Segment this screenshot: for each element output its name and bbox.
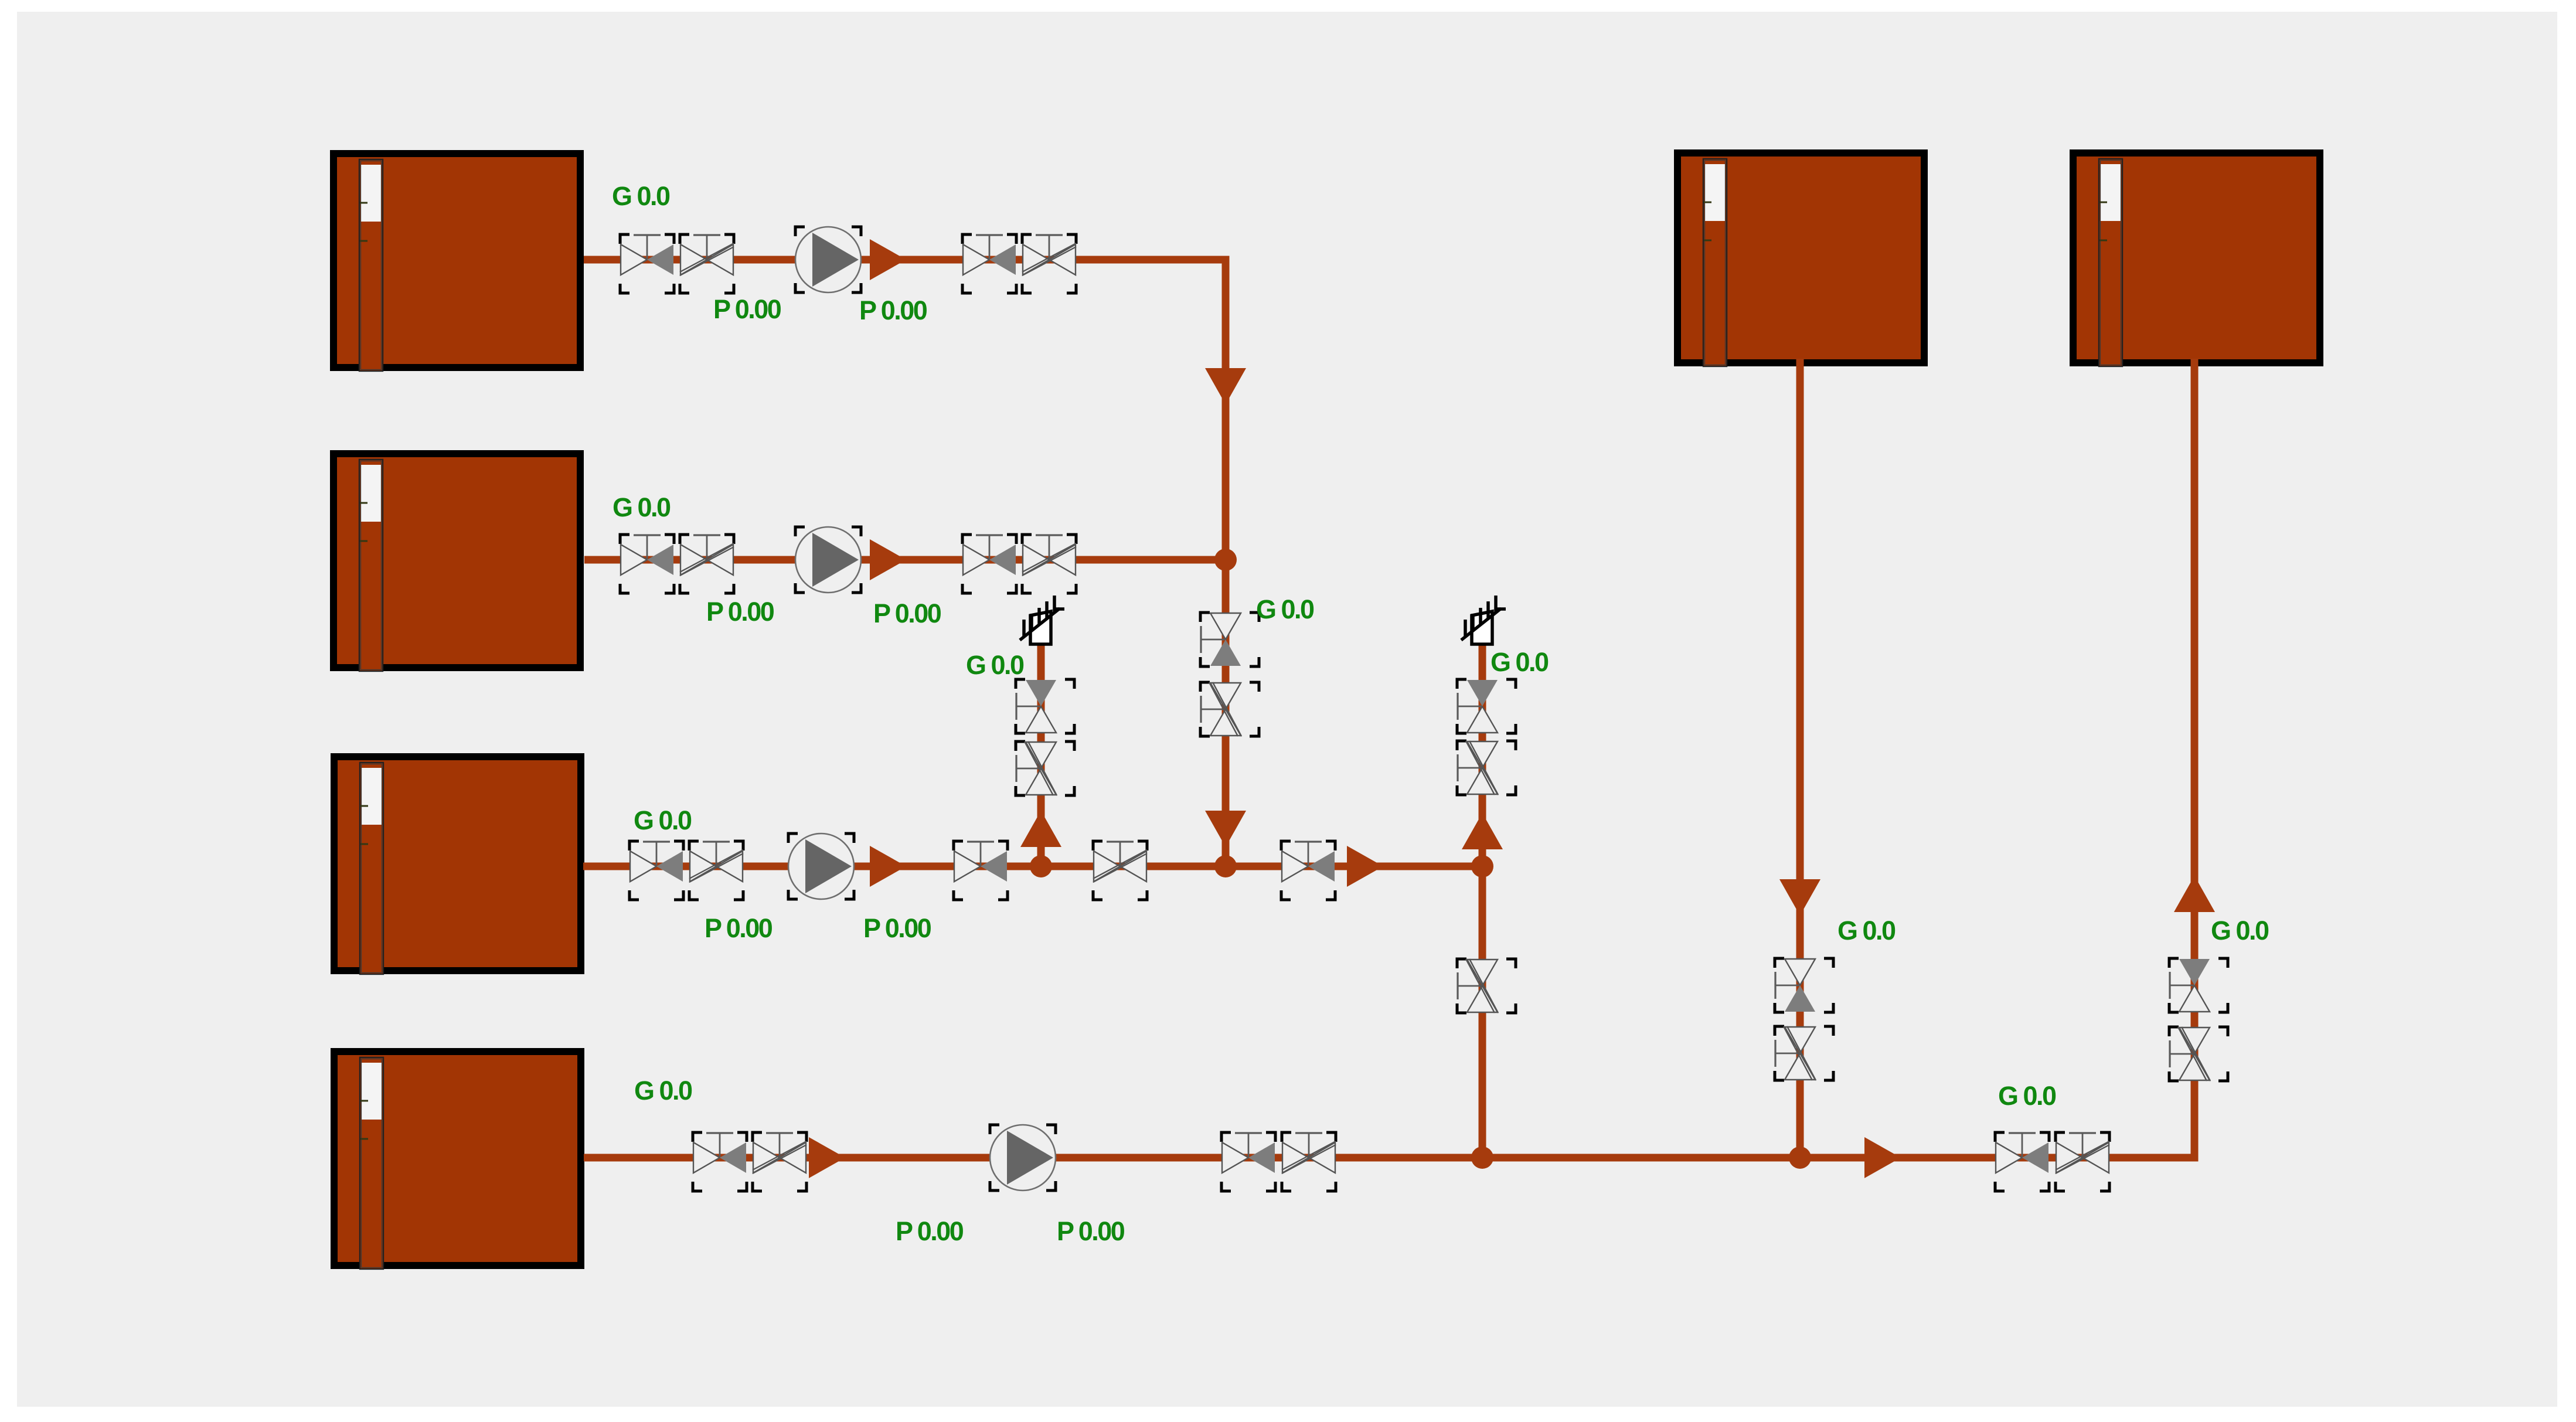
svg-text:G 0.0: G 0.0: [612, 181, 670, 211]
tank B3 (third boiler) level gauge: [360, 763, 383, 974]
tank B5 (top-right consumer) body: [1674, 149, 1928, 366]
svg-text:P 0.00: P 0.00: [859, 295, 927, 325]
pump P4 row-4: [990, 1125, 1056, 1190]
tank B6 (far-right consumer) level gauge: [2099, 159, 2122, 366]
node A junction row-1/row-2: [1214, 549, 1237, 571]
valve V24 shutoff vent branch 2: [1457, 679, 1516, 733]
svg-text:G 0.0: G 0.0: [612, 492, 671, 522]
tank B4 (bottom boiler) body: [331, 1048, 584, 1269]
valve V11 shutoff row-3 after pump: [954, 841, 1008, 900]
svg-text:G 0.0: G 0.0: [966, 650, 1024, 680]
svg-text:G 0.0: G 0.0: [1837, 916, 1896, 945]
valve V23 balancing vent branch 1: [1016, 741, 1074, 795]
flow arrow riser down lower: [1205, 811, 1246, 847]
flow arrow tank B5 downcomer: [1779, 879, 1820, 916]
valve V16 shutoff row-4 after pump: [1221, 1132, 1275, 1191]
svg-text:P 0.00: P 0.00: [706, 597, 774, 627]
valve V26 balancing node C to row-4: [1457, 959, 1516, 1013]
svg-text:P 0.00: P 0.00: [713, 294, 781, 324]
valve V10 balancing row-3: [689, 841, 743, 900]
tank B1 (top-left boiler) level gauge: [359, 159, 383, 371]
valve V28 balancing tank B5 downcomer: [1775, 1026, 1833, 1080]
node junction vent branch 1: [1030, 855, 1052, 877]
svg-text:G 0.0: G 0.0: [1491, 647, 1549, 677]
svg-text:G 0.0: G 0.0: [1998, 1081, 2056, 1111]
valve V14 shutoff row-4: [693, 1132, 747, 1191]
valve V21 balancing on riser: [1200, 682, 1259, 736]
valve V30 balancing tank B6 riser: [2169, 1027, 2228, 1081]
valve V3 shutoff row-1 after pump: [962, 234, 1016, 293]
valve V2 balancing row-1: [680, 234, 734, 293]
flow arrow up into tank B6: [2174, 876, 2215, 912]
valve V7 shutoff row-2 after pump: [962, 535, 1016, 593]
valve V8 balancing row-2 after pump: [1022, 535, 1076, 593]
vent branch 2 open vent symbol: [1461, 596, 1506, 644]
svg-text:G 0.0: G 0.0: [2211, 916, 2269, 945]
pump P1 row-1: [795, 227, 861, 292]
valve V29 shutoff tank B6 riser: [2169, 958, 2228, 1012]
flow arrow row-4 after node E: [1864, 1137, 1901, 1178]
valve V20 shutoff on riser: [1200, 613, 1259, 666]
flow arrow row-2 after pump: [870, 539, 906, 580]
flow arrow row-3 after pump: [870, 846, 906, 887]
valve V25 balancing vent branch 2: [1457, 741, 1516, 795]
node C junction row-3 / vent branch 2: [1471, 855, 1493, 877]
valve V9 shutoff row-3: [629, 841, 683, 900]
valve V17 balancing row-4 after pump: [1282, 1132, 1336, 1191]
tank B3 (third boiler) body: [331, 753, 584, 974]
flow arrow vent branch 1 up: [1020, 811, 1061, 847]
vent branch 1 open vent symbol: [1020, 596, 1064, 644]
valve V18 shutoff row-4 right: [1995, 1132, 2049, 1191]
tank B2 (second boiler) body: [330, 450, 584, 671]
valve V27 shutoff tank B5 downcomer: [1775, 958, 1833, 1012]
pump P2 row-2: [795, 527, 861, 593]
tank B4 (bottom boiler) level gauge: [360, 1057, 383, 1269]
valve V6 balancing row-2: [680, 535, 734, 593]
tank B5 (top-right consumer) level gauge: [1703, 159, 1727, 366]
flow arrow row-1 after pump: [870, 239, 906, 280]
wire row-1 supply from tank B1 with corner down: [584, 260, 1226, 866]
valve V15 balancing row-4: [753, 1132, 807, 1191]
svg-text:P 0.00: P 0.00: [896, 1216, 964, 1246]
tank B2 (second boiler) level gauge: [359, 460, 383, 671]
wire link node C to row-4: [1479, 866, 1486, 1158]
svg-text:P 0.00: P 0.00: [1057, 1216, 1125, 1246]
valve V13 shutoff row-3 to node C: [1281, 841, 1335, 900]
wire vent branch 2 riser: [1479, 645, 1486, 866]
svg-text:P 0.00: P 0.00: [873, 598, 941, 628]
wire row-2 supply from tank B2: [584, 556, 1226, 564]
valve V12 balancing row-3 mid: [1093, 841, 1147, 900]
node D junction on row-4: [1471, 1147, 1493, 1169]
wire tank B5 downcomer: [1796, 359, 1804, 1158]
wire vent branch 1 riser: [1037, 645, 1045, 866]
svg-text:G 0.0: G 0.0: [634, 1076, 692, 1105]
node B junction row-3 / riser: [1214, 855, 1237, 877]
valve V22 shutoff vent branch 1: [1016, 679, 1074, 733]
svg-text:P 0.00: P 0.00: [863, 913, 931, 943]
valve V4 balancing row-1 after pump: [1022, 234, 1076, 293]
wire row-3 supply from tank B3: [583, 863, 1482, 870]
tank B1 (top-left boiler) body: [330, 150, 584, 371]
flow arrow row-3 toward node C: [1347, 846, 1383, 887]
svg-text:G 0.0: G 0.0: [634, 805, 692, 835]
valve V1 shutoff row-1: [620, 234, 674, 293]
flow arrow vent branch 2 up: [1462, 813, 1503, 849]
svg-text:P 0.00: P 0.00: [705, 913, 773, 943]
flow arrow riser down upper: [1205, 368, 1246, 404]
wire row-4 main with corner up to tank B6: [584, 359, 2194, 1158]
valve V5 shutoff row-2: [620, 535, 674, 593]
svg-text:G 0.0: G 0.0: [1256, 594, 1314, 624]
valve V19 balancing row-4 right: [2056, 1132, 2109, 1191]
pump P3 row-3: [788, 834, 854, 899]
tank B6 (far-right consumer) body: [2070, 149, 2323, 366]
flow arrow row-4 before pump: [809, 1137, 845, 1178]
node E junction row-4 / tank B5 downcomer: [1789, 1147, 1811, 1169]
